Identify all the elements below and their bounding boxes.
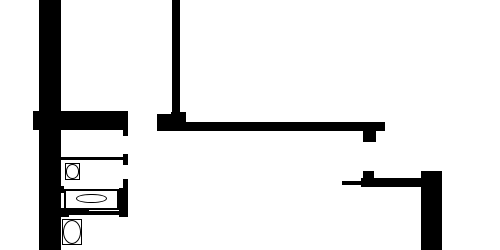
- wall H2 (long horizontal interior wall): [186, 122, 385, 131]
- wall S3 lower (right of bathtub): [119, 188, 128, 217]
- wall block B1 left (junction of W2 and H2): [157, 114, 171, 131]
- wall H3 (horizontal wall, lower right): [361, 178, 422, 188]
- wall stub S4 (jamb below H2 right end): [363, 131, 376, 142]
- wall bump (left of bathtub): [61, 186, 64, 193]
- wall stub S5 (above H3 left end): [363, 171, 374, 178]
- wall H5 (below bathtub): [61, 211, 129, 216]
- wall tail (thin line left of H3, lower right): [342, 181, 363, 185]
- wall W3 (thick vertical wall, lower right): [421, 171, 442, 250]
- washbasin (square with inscribed circle): [65, 163, 81, 180]
- wall step (bottom-left of H5): [61, 215, 70, 217]
- wall S3 upper (jamb right of bathtub, thin part): [123, 179, 128, 188]
- bathtub (rectangle with ellipse): [64, 189, 120, 210]
- wall jamb S2 (right end of H6): [123, 154, 129, 165]
- wall H6 (thin wall above washbasin): [61, 157, 123, 160]
- wall block B1 right (junction of W2 and H2): [171, 112, 186, 131]
- wall connector (left, under bathtub): [61, 208, 89, 211]
- toilet (square with inscribed oval): [62, 219, 83, 246]
- wall H1 (thick horizontal wall, upper-left): [33, 111, 128, 130]
- wall W1 (main thick vertical exterior wall, left): [39, 0, 60, 250]
- wall stub S1 (door jamb below H1 right end): [123, 130, 128, 137]
- wall W2 (thin vertical interior wall, top middle): [172, 0, 180, 112]
